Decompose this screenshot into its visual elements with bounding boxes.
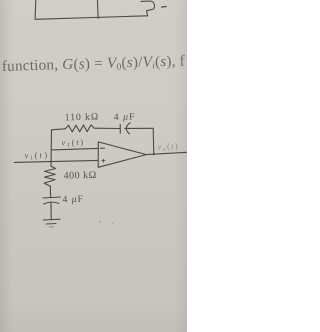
label: 4 uF value (feedback) xyxy=(114,111,136,123)
wire: feedback branch left segment xyxy=(52,129,66,130)
svg-text:vo(t): vo(t) xyxy=(158,142,180,153)
node: dust speck 2 xyxy=(112,222,113,223)
svg-text:v1(t): v1(t) xyxy=(61,138,85,149)
op-amp U1 minus pin mark xyxy=(100,147,104,149)
wire: resistor R2 to capacitor C2 xyxy=(49,186,51,197)
wire: capacitor C2 to ground xyxy=(50,203,52,220)
label: vo(t) output voltage xyxy=(158,142,180,153)
wire: feedback branch between resistor and capacitor xyxy=(94,127,120,129)
label: v1(t) node voltage xyxy=(61,138,85,149)
wire: input node vertical xyxy=(50,130,53,166)
node: dust speck 1 xyxy=(99,221,101,223)
label: 400 kOhm value xyxy=(63,170,96,182)
svg-text:110 kΩ: 110 kΩ xyxy=(65,111,100,123)
svg-text:4 μF: 4 μF xyxy=(114,111,136,123)
svg-text:4 μF: 4 μF xyxy=(62,194,84,206)
resistor R1 110 kOhm xyxy=(65,125,94,132)
wire: top cropped figure left vertical xyxy=(35,0,148,19)
label: caption text line xyxy=(2,52,186,76)
node: output junction xyxy=(153,153,155,155)
resistor R2 400 kOhm xyxy=(44,166,55,186)
wire: top cropped figure middle vertical xyxy=(96,0,99,18)
wire: op-amp output to right edge xyxy=(146,152,187,154)
wire: feedback branch capacitor to right corner xyxy=(125,127,154,129)
svg-text:function, G(s) = V0(s)/Vi(s),: function, G(s) = V0(s)/Vi(s), f xyxy=(2,52,186,76)
wire: inverting input xyxy=(51,148,98,150)
capacitor C1 4 uF (feedback) xyxy=(120,123,130,134)
op-amp U1 plus pin mark xyxy=(102,159,105,162)
ground xyxy=(43,219,60,227)
capacitor C2 4 uF (shunt) xyxy=(43,197,61,204)
label: 4 uF value (shunt) xyxy=(62,194,84,206)
wire: source to noninverting input xyxy=(14,160,98,162)
op-amp U1 xyxy=(98,142,146,167)
svg-text:vi(t): vi(t) xyxy=(24,151,49,162)
label: vi(t) input voltage xyxy=(24,151,49,162)
wire: top cropped figure right hook xyxy=(141,1,155,16)
wire: right vertical from feedback to output xyxy=(152,128,155,154)
label: 110 kOhm value xyxy=(65,111,100,123)
node: input junction xyxy=(50,160,52,162)
label: minus sign top right xyxy=(162,6,167,9)
svg-text:400 kΩ: 400 kΩ xyxy=(63,170,96,182)
